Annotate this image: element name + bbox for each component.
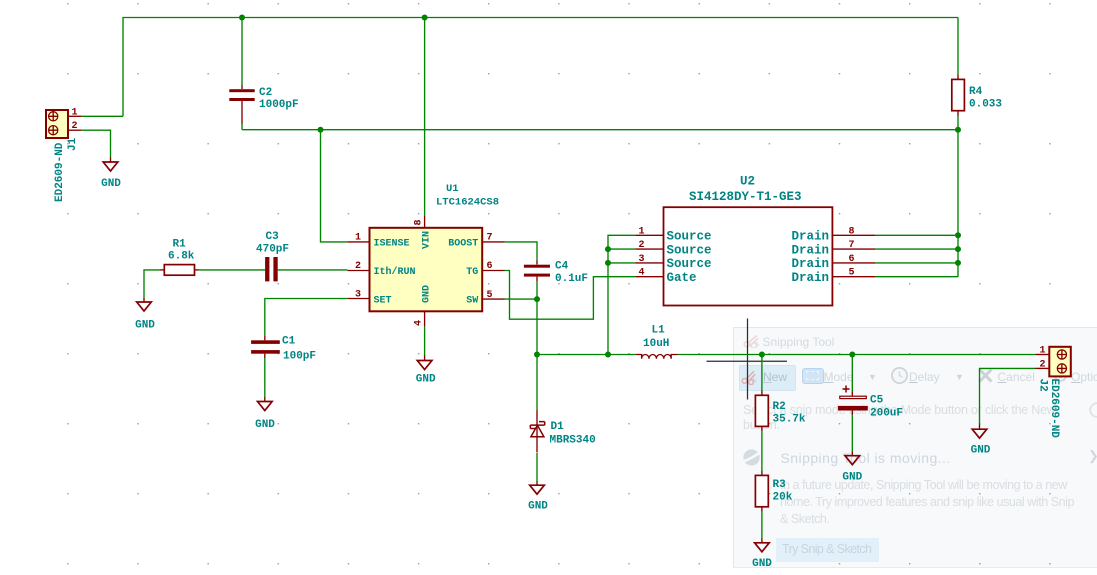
value ED2609-ND (J2): [1048, 379, 1060, 439]
reference R3: [773, 479, 787, 491]
svg-text:100pF: 100pF: [283, 351, 316, 363]
svg-text:1: 1: [639, 226, 645, 237]
svg-text:6: 6: [487, 261, 493, 272]
pin number U1-4: [414, 320, 425, 326]
pin number U1-7: [487, 233, 493, 244]
svg-text:1: 1: [355, 233, 361, 244]
svg-text:R4: R4: [969, 86, 983, 98]
wire R3 to GND: [761, 512, 763, 539]
value label C2: [259, 87, 272, 99]
svg-text:7: 7: [849, 240, 855, 251]
wire J2 pin2 to GND: [980, 368, 1036, 424]
svg-text:8: 8: [414, 219, 425, 225]
svg-text:2: 2: [1040, 359, 1046, 370]
svg-text:1: 1: [72, 107, 78, 118]
wire C5 top lead: [851, 355, 853, 392]
svg-text:MBRS340: MBRS340: [550, 435, 596, 447]
pin number J2-1: [1040, 346, 1046, 357]
wire R4 bottom lead: [957, 116, 959, 130]
notification icon: [743, 449, 760, 466]
value LTC1624CS8: [436, 197, 499, 209]
svg-text:3: 3: [355, 289, 361, 300]
svg-text:Drain: Drain: [791, 271, 829, 285]
resistor R3: [755, 471, 768, 512]
wire drain pin7: [875, 248, 958, 250]
pin name SET: [374, 295, 392, 306]
svg-text:GND: GND: [416, 374, 436, 386]
wire J1 pin1 to rail: [81, 115, 123, 117]
svg-text:8: 8: [849, 226, 855, 237]
value label 470pF: [256, 244, 289, 256]
value 10uH: [643, 338, 669, 350]
resistor R4: [952, 75, 965, 117]
pin number U2-8: [849, 226, 855, 237]
inductor L1: [635, 355, 678, 359]
pin name Drain 6: [791, 257, 829, 271]
svg-text:GND: GND: [842, 472, 862, 484]
wire SET to C1: [265, 299, 348, 337]
wire source pin3: [608, 262, 635, 264]
ground label GND (U1): [416, 374, 436, 386]
hint text: [743, 403, 1056, 417]
svg-text:SI4128DY-T1-GE3: SI4128DY-T1-GE3: [689, 190, 802, 204]
ground label GND (J1): [101, 178, 121, 190]
ground label GND (C1): [255, 419, 275, 431]
wire R2 to R3: [761, 431, 763, 471]
junction R2 node: [759, 352, 765, 358]
Try Snip & Sketch button: [776, 538, 879, 562]
wire C2 bottom to rail2: [241, 124, 243, 130]
svg-text:35.7k: 35.7k: [773, 414, 806, 426]
wire source pin1 elbow: [608, 235, 635, 354]
reference U1: [446, 183, 459, 195]
value 6.8k: [168, 251, 195, 263]
ground C5: [845, 452, 860, 465]
junction C5 node: [849, 352, 855, 358]
Options (gear mostly hidden behind J2): [1052, 367, 1069, 384]
junction drain8: [955, 232, 961, 238]
pin name Drain 7: [791, 243, 829, 257]
junction drain6: [955, 260, 961, 266]
wire D1 bottom to GND: [536, 453, 538, 481]
reference U2: [740, 175, 755, 189]
pin name ISENSE: [374, 238, 410, 249]
wire rail2 ISENSE sense net: [242, 129, 958, 131]
svg-text:10uH: 10uH: [643, 338, 669, 350]
svg-text:Drain: Drain: [791, 257, 829, 271]
wire drain pin8: [875, 234, 958, 236]
pin number J1-2: [72, 121, 78, 132]
svg-text:1000pF: 1000pF: [259, 99, 299, 111]
svg-text:R3: R3: [773, 479, 787, 491]
wire SW to node: [505, 298, 538, 300]
value 20k: [773, 492, 793, 504]
svg-text:SET: SET: [374, 295, 392, 306]
svg-text:5: 5: [849, 268, 855, 279]
pin number U1-8: [414, 219, 425, 225]
ground U1 pin4: [417, 356, 432, 370]
reference C4: [555, 261, 569, 273]
value 100pF: [283, 351, 316, 363]
value 200uF: [870, 408, 903, 420]
junction source pin2: [605, 246, 611, 252]
svg-text:J2: J2: [1037, 379, 1049, 392]
svg-text:U1: U1: [446, 183, 459, 195]
Cancel: [977, 367, 994, 384]
value 0.033: [969, 99, 1002, 111]
svg-text:Gate: Gate: [667, 271, 697, 285]
pin name Gate: [667, 271, 697, 285]
value label 1000pF: [259, 99, 299, 111]
svg-text:4: 4: [414, 320, 425, 326]
svg-text:470pF: 470pF: [256, 244, 289, 256]
svg-text:ED2609-ND: ED2609-ND: [54, 142, 66, 202]
junction SW node: [534, 352, 540, 358]
svg-text:ED2609-ND: ED2609-ND: [1048, 379, 1060, 439]
svg-text:GND: GND: [101, 178, 121, 190]
ground label GND (D1): [528, 501, 548, 513]
svg-text:U2: U2: [740, 175, 755, 189]
svg-text:2: 2: [355, 261, 361, 272]
capacitor C2: [229, 85, 254, 124]
junction rail2 R4 drain column: [955, 127, 961, 133]
svg-text:1: 1: [1040, 346, 1046, 357]
svg-text:GND: GND: [971, 444, 991, 456]
pin number U2-3: [639, 254, 645, 265]
wire R2 top lead: [761, 355, 763, 391]
transistor U2 SI4128DY-T1-GE3 (dual MOSFET): [635, 207, 875, 305]
reference C1: [282, 336, 296, 348]
capacitor C3: [265, 257, 278, 281]
junction rail1 VIN drop: [422, 15, 428, 21]
wire drain column vertical: [957, 130, 959, 277]
pin number U1-1: [355, 233, 361, 244]
svg-text:6.8k: 6.8k: [168, 251, 195, 263]
pin name Source 1: [667, 230, 712, 244]
svg-text:VIN: VIN: [422, 231, 433, 249]
svg-text:GND: GND: [752, 558, 772, 570]
pin name VIN: [422, 231, 433, 249]
reference J2: [1037, 379, 1049, 392]
svg-text:C3: C3: [266, 231, 280, 243]
value MBRS340: [550, 435, 596, 447]
svg-text:2: 2: [72, 121, 78, 132]
svg-text:200uF: 200uF: [870, 408, 903, 420]
svg-text:Source: Source: [667, 257, 712, 271]
value 0.1uF: [555, 273, 588, 285]
Delay: [890, 366, 909, 385]
pin number J2-2: [1040, 359, 1046, 370]
crosshair cursor vertical: [747, 319, 749, 400]
pin number U1-2: [355, 261, 361, 272]
svg-text:2: 2: [639, 240, 645, 251]
capacitor C5 polarized: [838, 386, 868, 415]
wire node to L1: [537, 354, 635, 356]
svg-text:LTC1624CS8: LTC1624CS8: [436, 197, 499, 209]
title bar icon (washed scissors logo): [743, 334, 761, 348]
wire C1 bottom to GND: [264, 358, 266, 397]
reference R4: [969, 86, 983, 98]
svg-text:7: 7: [487, 233, 493, 244]
svg-text:4: 4: [639, 268, 645, 279]
junction rail2 ISENSE drop: [318, 127, 324, 133]
svg-text:J1: J1: [67, 137, 79, 151]
wire C2 top lead: [241, 18, 243, 86]
svg-text:GND: GND: [135, 320, 155, 332]
resistor R2: [755, 391, 768, 432]
wire R1 to C3: [199, 269, 266, 271]
wire SW drop to output node: [536, 299, 538, 354]
ground R1: [137, 298, 152, 312]
New button: [739, 365, 796, 391]
svg-text:0.1uF: 0.1uF: [555, 273, 588, 285]
ground label GND (R1): [135, 320, 155, 332]
svg-text:BOOST: BOOST: [448, 238, 478, 249]
value 35.7k: [773, 414, 806, 426]
ground J1: [103, 158, 118, 172]
pin name BOOST: [448, 238, 478, 249]
wire ISENSE drop: [321, 130, 348, 242]
pin number U2-1: [639, 226, 645, 237]
junction source column node: [605, 352, 611, 358]
capacitor C1: [251, 336, 280, 358]
pin name Ith/RUN: [374, 266, 416, 278]
pin name Source 2: [667, 243, 712, 257]
wire L1 to J2 pin1: [678, 354, 1036, 356]
svg-text:0.033: 0.033: [969, 99, 1002, 111]
pin number U1-6: [487, 261, 493, 272]
wire C4 bottom to SW: [536, 281, 538, 299]
pin name TG: [466, 267, 478, 278]
ic U1 LTC1624CS8: [347, 215, 504, 326]
wire C3 to U1 pin2: [278, 269, 348, 271]
pin name SW: [466, 295, 478, 306]
ground C1: [258, 397, 273, 411]
pin name Source 3: [667, 257, 712, 271]
svg-text:SW: SW: [466, 295, 478, 306]
ground R3: [755, 539, 770, 552]
junction drain7: [955, 246, 961, 252]
ground J2: [972, 425, 987, 439]
junction source pin3: [605, 260, 611, 266]
connector J1: [46, 110, 81, 138]
svg-text:C1: C1: [282, 336, 296, 348]
value label C3: [266, 231, 280, 243]
svg-text:TG: TG: [466, 267, 478, 278]
pin number U2-5: [849, 268, 855, 279]
svg-text:Source: Source: [667, 243, 712, 257]
Mode: [802, 368, 824, 384]
pin number U2-2: [639, 240, 645, 251]
value SI4128DY-T1-GE3: [689, 190, 802, 204]
svg-text:R2: R2: [773, 401, 786, 413]
connector J2: [1036, 347, 1071, 377]
wire U1 pin4 to GND: [424, 326, 426, 355]
pin name Drain 8: [791, 230, 829, 244]
svg-text:GND: GND: [528, 501, 548, 513]
ground label GND (R3): [752, 558, 772, 570]
diode D1: [530, 410, 544, 452]
svg-text:Ith/RUN: Ith/RUN: [374, 266, 416, 278]
pin name GND (U1): [422, 285, 433, 303]
ground label GND (C5): [842, 472, 862, 484]
wire C5 to GND: [851, 415, 853, 452]
wire VIN drop to U1 pin8: [424, 18, 426, 216]
svg-text:6: 6: [849, 254, 855, 265]
svg-text:GND: GND: [255, 419, 275, 431]
junction rail1 C2: [239, 15, 245, 21]
wire drain pin6: [875, 262, 958, 264]
pin number U2-7: [849, 240, 855, 251]
pin number U2-4: [639, 268, 645, 279]
svg-text:D1: D1: [551, 421, 565, 433]
wire VIN top rail: [123, 18, 958, 117]
junction SW C4: [534, 296, 540, 302]
svg-text:GND: GND: [422, 285, 433, 303]
svg-text:Source: Source: [667, 230, 712, 244]
resistor R1: [160, 265, 199, 276]
svg-text:3: 3: [639, 254, 645, 265]
reference L1: [652, 325, 666, 337]
wire source pin2: [608, 248, 635, 250]
crosshair cursor horizontal: [707, 360, 788, 362]
ground D1: [530, 481, 545, 494]
wire BOOST to C4: [505, 242, 538, 261]
wire J1 pin2 to GND: [81, 130, 111, 157]
reference C5: [870, 395, 884, 407]
svg-text:C2: C2: [259, 87, 272, 99]
ground label GND (J2): [971, 444, 991, 456]
capacitor C4: [524, 261, 550, 282]
reference R1: [173, 239, 187, 251]
svg-text:Drain: Drain: [791, 243, 829, 257]
reference R2: [773, 401, 786, 413]
pin number U1-3: [355, 289, 361, 300]
pin number U2-6: [849, 254, 855, 265]
svg-text:ISENSE: ISENSE: [374, 238, 410, 249]
wire R4 top lead: [957, 18, 959, 75]
wire TG gate path: [505, 271, 636, 320]
pin name Drain 5: [791, 271, 829, 285]
svg-text:5: 5: [487, 290, 493, 301]
svg-text:R1: R1: [173, 239, 187, 251]
wire D1 top: [536, 355, 538, 411]
reference D1: [551, 421, 565, 433]
value ED2609-ND (J1): [54, 142, 66, 202]
svg-text:L1: L1: [652, 325, 666, 337]
pin number U1-5: [487, 290, 493, 301]
reference J1: [67, 137, 79, 151]
svg-text:C5: C5: [870, 395, 884, 407]
pin number J1-1: [72, 107, 78, 118]
info circle at right edge: [1089, 402, 1097, 418]
wire drain pin5: [875, 276, 958, 278]
svg-text:Drain: Drain: [791, 230, 829, 244]
wire R1 left to GND: [144, 270, 160, 298]
svg-text:20k: 20k: [773, 492, 793, 504]
svg-text:C4: C4: [555, 261, 569, 273]
